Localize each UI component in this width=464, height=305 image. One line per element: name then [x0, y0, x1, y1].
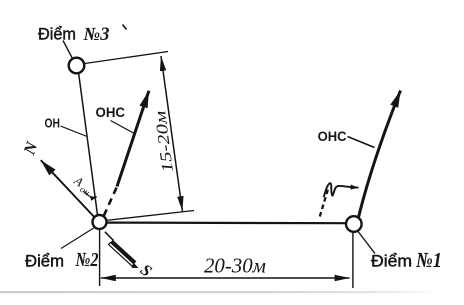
svg-text:№3: №3 [83, 25, 110, 45]
svg-text:ОНС: ОНС [96, 104, 126, 120]
svg-text:N: N [19, 138, 42, 158]
svg-text:20-30м: 20-30м [204, 254, 266, 278]
svg-text:№2: №2 [75, 249, 99, 271]
svg-text:Điểm: Điểm [38, 25, 76, 44]
svg-text:Điểm: Điểm [25, 252, 64, 271]
svg-text:№1: №1 [415, 248, 442, 272]
svg-text:ОНС: ОНС [318, 128, 347, 144]
svg-text:Điểm: Điểm [371, 252, 412, 271]
svg-text:ОН: ОН [45, 116, 61, 131]
